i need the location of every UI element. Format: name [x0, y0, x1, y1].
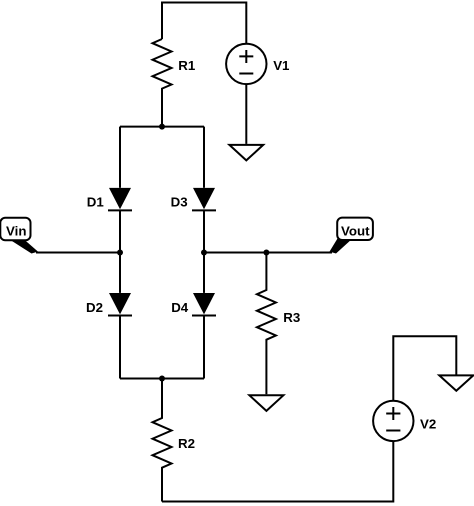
- diode D4: [171, 293, 216, 316]
- diode D2: [86, 293, 132, 316]
- resistor R2: [153, 379, 196, 502]
- svg-text:V2: V2: [420, 417, 436, 432]
- node Vin junction: [117, 250, 123, 256]
- resistor R1: [153, 39, 196, 127]
- wire D4 to bottom rail: [203, 316, 205, 379]
- diode D3: [171, 188, 216, 211]
- svg-text:D4: D4: [171, 300, 189, 315]
- wire V1 to ground: [245, 84, 247, 144]
- ground below R3: [249, 395, 283, 411]
- node Vout junction: [201, 250, 207, 256]
- resistor R3: [257, 253, 300, 395]
- ground right of V2: [439, 375, 473, 390]
- node junction R2: [159, 376, 165, 382]
- wire top rail from R1 to V1: [162, 3, 246, 44]
- voltage source V1: [226, 44, 290, 84]
- ground below V1: [229, 145, 263, 161]
- node R3 junction: [263, 250, 269, 256]
- wire junction row below R1: [120, 126, 204, 128]
- wire D1 to D2: [119, 210, 121, 293]
- wire right column down to D3: [203, 127, 205, 188]
- wire V2 top to ground: [393, 336, 456, 400]
- svg-text:D1: D1: [87, 195, 105, 210]
- node flag Vin: [0, 218, 38, 254]
- svg-text:V1: V1: [273, 58, 290, 73]
- wire D3 to D4: [203, 210, 205, 293]
- wire Vin to D1/D2 junction: [36, 252, 120, 254]
- svg-text:R3: R3: [283, 310, 300, 325]
- wire Vout junction to flag: [204, 252, 332, 254]
- wire left column down to D1: [119, 127, 121, 188]
- diode D1: [87, 188, 132, 211]
- svg-text:R2: R2: [178, 436, 195, 451]
- svg-text:D3: D3: [171, 195, 188, 210]
- wire bottom rail to V2: [162, 441, 393, 502]
- svg-text:Vout: Vout: [341, 223, 370, 238]
- svg-text:D2: D2: [86, 300, 103, 315]
- svg-text:R1: R1: [178, 58, 196, 73]
- wire D2 to bottom rail: [119, 316, 121, 379]
- wire bottom rail D2-D4: [120, 378, 204, 380]
- voltage source V2: [373, 401, 436, 441]
- svg-text:Vin: Vin: [6, 223, 26, 238]
- node flag Vout: [330, 218, 373, 254]
- node junction R1/D1/D3: [159, 124, 165, 130]
